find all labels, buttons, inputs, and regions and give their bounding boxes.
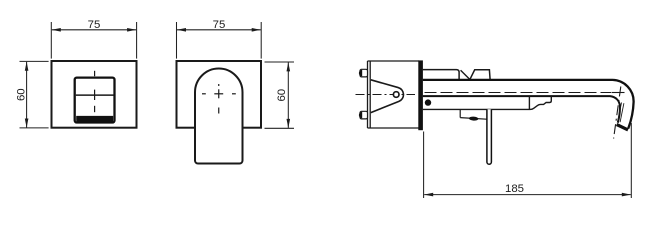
supply dot on housing [425, 99, 431, 105]
dimension 75 (left view) [51, 22, 136, 59]
arrow top (dim 60 left view) [25, 62, 29, 71]
mounting tab top cap [359, 70, 362, 77]
mounting tab top [360, 69, 368, 77]
outlet end face [617, 125, 628, 130]
arrow right (dim 185) [622, 193, 631, 197]
bottom profile rising to right end [423, 96, 552, 109]
arrow left (dim 75 left view) [52, 28, 61, 32]
pivot pin (lens) [469, 116, 479, 121]
spout aperture square [75, 78, 115, 123]
centerline through in-wall body [356, 94, 416, 96]
outlet bore lines [618, 103, 624, 123]
spout hidden dash line [425, 92, 612, 94]
vertical centerline (left view) [94, 71, 96, 112]
svg-text:75: 75 [88, 19, 101, 31]
wall plate (left view) [52, 61, 137, 128]
arrow left (dim 75 middle view) [177, 28, 186, 32]
in-wall body box [368, 61, 420, 128]
lever stem [487, 109, 492, 164]
arrow left (dim 185) [424, 193, 433, 197]
under-housing [423, 96, 552, 109]
arrow bottom (dim 60 middle view) [287, 119, 291, 128]
escutcheon plate (profile, filled) [418, 60, 423, 130]
screw circle [393, 92, 399, 98]
arrow right (dim 75 middle view) [252, 28, 261, 32]
lever boss (trapezoid on top) [470, 70, 490, 80]
dimension 60 (left view) [20, 61, 49, 128]
spout outlet slot (filled) [76, 116, 113, 123]
arrow top (dim 60 middle view) [287, 62, 291, 71]
spout top line [423, 80, 634, 129]
center mark (middle view) [202, 84, 236, 114]
handle lever (arch) [195, 69, 243, 164]
svg-text:60: 60 [276, 89, 288, 102]
V bracket [371, 80, 404, 113]
dimension 185 [424, 123, 632, 198]
joint vertical [528, 96, 530, 109]
wall plate (middle view) [177, 61, 262, 128]
outlet axis cross [612, 92, 625, 94]
mounting tab bottom cap [359, 112, 362, 119]
arrow right (dim 75 left view) [127, 28, 136, 32]
mounting tab bottom [360, 111, 368, 119]
spout divider line [76, 94, 114, 96]
svg-text:185: 185 [505, 183, 524, 195]
arrow bottom (dim 60 left view) [25, 119, 29, 128]
hinge notch [460, 109, 486, 119]
dimension 60 (middle view, right side) [265, 62, 295, 128]
dimension 75 (middle view) [177, 22, 262, 59]
spout bottom line [423, 96, 620, 123]
valve housing top [423, 70, 459, 80]
svg-text:75: 75 [213, 19, 226, 31]
svg-text:60: 60 [15, 88, 27, 101]
lever nose (diagonal) [461, 70, 470, 79]
